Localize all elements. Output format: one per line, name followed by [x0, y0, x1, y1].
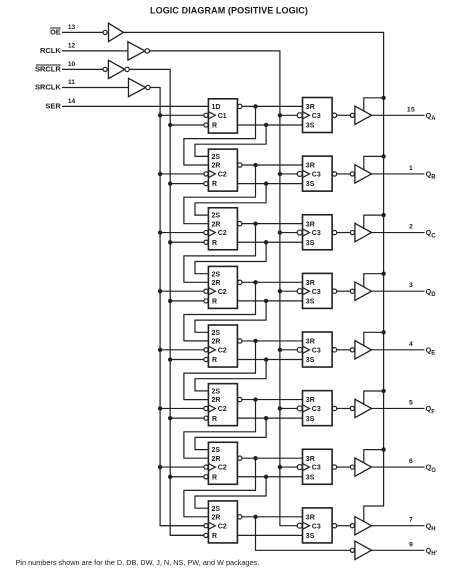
wire SRCLR to FF2 R input	[168, 181, 204, 185]
svg-text:2S: 2S	[212, 389, 221, 396]
svg-text:R: R	[212, 298, 217, 305]
wire output QG	[372, 466, 425, 468]
tri-state buffer B7 (output G)	[350, 458, 371, 476]
wire SRCLK to FF3 C input	[158, 230, 204, 234]
wire FF4 Q to FF5 2S	[195, 301, 266, 332]
wire FF7 Q to latch 3S (node G)	[237, 475, 302, 479]
wire RCLK to latch U1 C3	[278, 113, 298, 117]
input label OE	[50, 28, 61, 37]
wire latch U1 out to output buffer	[337, 114, 351, 116]
wire FF4 Q to latch 3S (node D)	[237, 299, 302, 303]
svg-text:1D: 1D	[212, 104, 221, 111]
svg-text:C3: C3	[312, 172, 321, 179]
svg-text:R: R	[212, 123, 217, 130]
svg-text:3R: 3R	[306, 456, 315, 463]
svg-text:C3: C3	[312, 347, 321, 354]
svg-text:3S: 3S	[306, 123, 315, 130]
wire OE rail to buffer B5 enable	[364, 330, 386, 345]
svg-text:13: 13	[68, 24, 76, 31]
wire output QD	[372, 290, 425, 292]
wire latch U5 out to output buffer	[337, 349, 351, 351]
wire latch U8 out to output buffer	[337, 525, 351, 527]
svg-text:R: R	[212, 474, 217, 481]
wire FF7 Q to FF8 2S	[195, 477, 266, 508]
svg-text:LOGIC DIAGRAM (POSITIVE LOGIC): LOGIC DIAGRAM (POSITIVE LOGIC)	[150, 5, 308, 15]
wire output QB	[372, 173, 425, 175]
svg-text:Pin numbers shown are for the: Pin numbers shown are for the D, DB, DW,…	[16, 558, 260, 567]
svg-text:2R: 2R	[212, 280, 221, 287]
tri-state buffer B3 (output C)	[350, 223, 371, 241]
wire output QE	[372, 349, 425, 351]
wire FF2 /Q to FF3 2R	[184, 165, 256, 224]
wire OE rail to buffer B3 enable	[364, 213, 386, 228]
svg-text:3R: 3R	[306, 397, 315, 404]
latch U3 (stage C storage)	[297, 215, 336, 250]
wire SRCLR to FF5 R input	[168, 357, 204, 361]
svg-text:2: 2	[409, 224, 413, 231]
svg-text:10: 10	[68, 61, 76, 68]
svg-text:2R: 2R	[212, 163, 221, 170]
wire SRCLK to FF6 C input	[158, 406, 204, 410]
svg-text:C1: C1	[218, 113, 227, 120]
svg-text:C3: C3	[312, 406, 321, 413]
buffer G1 OE inverting-input	[103, 23, 123, 41]
wire RCLK to latch U4 C3	[278, 289, 298, 293]
svg-text:2R: 2R	[212, 221, 221, 228]
svg-text:2S: 2S	[212, 154, 221, 161]
svg-text:R: R	[212, 416, 217, 423]
wire SRCLR rail (net shift-clear)	[129, 69, 204, 535]
svg-text:C2: C2	[218, 465, 227, 472]
wire latch U6 out to output buffer	[337, 407, 351, 409]
wire RCLK rail (net latch-clock)	[149, 51, 297, 526]
tri-state buffer B6 (output F)	[350, 399, 371, 417]
wire FF3 Q to FF4 2S	[195, 242, 266, 273]
input label SER	[45, 102, 61, 111]
svg-text:C3: C3	[312, 113, 321, 120]
buffer G3 SRCLR inverting-input inverting-output	[103, 60, 129, 78]
svg-text:6: 6	[409, 458, 413, 465]
flip-flop FF7 (stage G)	[204, 442, 242, 484]
wire latch U2 out to output buffer	[337, 173, 351, 175]
svg-text:11: 11	[68, 79, 75, 86]
svg-text:3R: 3R	[306, 221, 315, 228]
wire FF1 Q to FF2 2S	[195, 125, 266, 156]
wire OE rail to buffer B6 enable	[364, 389, 386, 404]
wire RCLK to latch U7 C3	[278, 465, 298, 469]
tri-state buffer B4 (output D)	[350, 282, 371, 300]
svg-text:C2: C2	[218, 172, 227, 179]
wire FF7 /Q to FF8 2R	[184, 458, 256, 517]
svg-text:C2: C2	[218, 347, 227, 354]
latch U6 (stage F storage)	[297, 391, 336, 426]
flip-flop FF5 (stage E)	[204, 325, 242, 367]
wire output QF	[372, 407, 425, 409]
wire FF2 /Q to latch 3R (node BN)	[242, 163, 303, 167]
wire output QH	[372, 525, 425, 527]
svg-text:2S: 2S	[212, 330, 221, 337]
svg-text:RCLK: RCLK	[40, 46, 61, 55]
wire RCLK to latch U2 C3	[278, 172, 298, 176]
wire FF5 Q to FF6 2S	[195, 360, 266, 391]
wire FF2 Q to FF3 2S	[195, 184, 266, 216]
svg-text:3S: 3S	[306, 240, 315, 247]
wire FF4 /Q to FF5 2R	[184, 282, 256, 341]
wire latch U4 out to output buffer	[337, 290, 351, 292]
svg-text:R: R	[212, 240, 217, 247]
wire SRCLR input	[62, 68, 103, 70]
inverter G4 SRCLK	[129, 78, 151, 96]
wire OE rail to buffer B8 enable	[0, 0, 1, 1]
wire SRCLK input	[62, 87, 129, 89]
wire RCLK to latch U3 C3	[278, 230, 298, 234]
wire RCLK to latch U8 C3	[0, 0, 1, 1]
wire SRCLK to FF2 C input	[158, 172, 204, 176]
wire OE rail to buffer B2 enable	[364, 154, 386, 169]
svg-text:3S: 3S	[306, 474, 315, 481]
svg-text:2S: 2S	[212, 271, 221, 278]
svg-text:C3: C3	[312, 230, 321, 237]
wire FF8 /Q to QH' buffer	[256, 517, 351, 551]
svg-text:SRCLR: SRCLR	[35, 65, 61, 74]
svg-text:C2: C2	[218, 523, 227, 530]
svg-text:2S: 2S	[212, 447, 221, 454]
wire OE rail to buffer B1 enable	[364, 96, 386, 111]
svg-text:12: 12	[68, 43, 76, 50]
svg-text:3S: 3S	[306, 298, 315, 305]
svg-text:2R: 2R	[212, 514, 221, 521]
latch U5 (stage E storage)	[297, 332, 336, 367]
wire FF3 Q to latch 3S (node C)	[237, 240, 302, 244]
wire FF5 /Q to latch 3R (node EN)	[242, 339, 303, 343]
wire SRCLR to FF8 R input	[170, 534, 204, 536]
wire SRCLR to FF7 R input	[168, 475, 204, 479]
svg-text:2R: 2R	[212, 456, 221, 463]
wire FF1 /Q to FF2 2R	[184, 106, 256, 165]
wire OE rail to buffer B4 enable	[364, 271, 386, 286]
latch U8 (stage H storage)	[297, 508, 336, 543]
input label RCLK	[40, 46, 61, 55]
svg-text:3R: 3R	[306, 280, 315, 287]
svg-text:3S: 3S	[306, 533, 315, 540]
wire FF5 Q to latch 3S (node E)	[237, 357, 302, 361]
svg-text:9: 9	[409, 541, 413, 548]
svg-text:15: 15	[407, 106, 415, 113]
svg-text:C2: C2	[218, 289, 227, 296]
wire OE input	[62, 31, 103, 33]
wire FF7 /Q to latch 3R (node GN)	[242, 456, 303, 460]
svg-text:2R: 2R	[212, 397, 221, 404]
svg-text:3R: 3R	[306, 104, 315, 111]
svg-text:R: R	[212, 357, 217, 364]
flip-flop FF8 (stage H)	[204, 501, 242, 543]
flip-flop FF2 (stage B)	[204, 149, 242, 191]
wire FF2 Q to latch 3S (node B)	[237, 181, 302, 185]
wire FF6 Q to FF7 2S	[195, 418, 266, 449]
svg-text:4: 4	[409, 341, 413, 348]
tri-state buffer B1 (output A)	[350, 106, 371, 124]
svg-text:2S: 2S	[212, 506, 221, 513]
latch U7 (stage G storage)	[297, 449, 336, 484]
svg-text:3: 3	[409, 282, 413, 289]
svg-text:C3: C3	[312, 523, 321, 530]
svg-text:14: 14	[68, 98, 76, 105]
wire SRCLR to FF3 R input	[168, 240, 204, 244]
svg-text:SRCLK: SRCLK	[35, 83, 61, 92]
wire output QC	[372, 232, 425, 234]
latch U4 (stage D storage)	[297, 273, 336, 308]
wire FF6 Q to latch 3S (node F)	[237, 416, 302, 420]
wire FF6 /Q to latch 3R (node FN)	[242, 397, 303, 401]
wire SRCLK to FF1 C input	[158, 113, 204, 117]
wire FF6 /Q to FF7 2R	[184, 400, 256, 459]
flip-flop FF4 (stage D)	[204, 266, 242, 308]
wire FF4 /Q to latch 3R (node DN)	[242, 280, 303, 284]
tri-state buffer B2 (output B)	[350, 165, 371, 183]
svg-text:2S: 2S	[212, 213, 221, 220]
wire RCLK to latch U5 C3	[278, 348, 298, 352]
svg-text:R: R	[212, 181, 217, 188]
wire FF1 /Q to latch 3R (node AN)	[242, 104, 303, 108]
wire FF3 /Q to latch 3R (node CN)	[242, 221, 303, 225]
flip-flop FF3 (stage C)	[204, 208, 242, 250]
wire SRCLR to FF1 R input	[168, 123, 204, 127]
buffer B9 (output QH')	[350, 541, 371, 559]
wire FF8 Q to latch 3S (node H)	[237, 534, 302, 536]
svg-text:3R: 3R	[306, 163, 315, 170]
wire SER input to 1D of FF1	[62, 105, 208, 107]
svg-text:3R: 3R	[306, 339, 315, 346]
svg-text:C3: C3	[312, 289, 321, 296]
wire FF1 Q to latch 3S (node A)	[237, 123, 302, 127]
svg-text:1: 1	[409, 165, 413, 172]
wire RCLK to latch U6 C3	[278, 406, 298, 410]
svg-text:3S: 3S	[306, 357, 315, 364]
svg-text:C2: C2	[218, 230, 227, 237]
svg-text:C3: C3	[312, 465, 321, 472]
wire output QH'	[372, 549, 425, 551]
svg-text:7: 7	[409, 517, 413, 524]
wire OE rail to buffer B7 enable	[364, 447, 386, 462]
latch U1 (stage A storage)	[297, 98, 336, 133]
wire FF3 /Q to FF4 2R	[184, 224, 256, 283]
tri-state buffer B8 (output H)	[350, 517, 371, 535]
wire SRCLK to FF5 C input	[158, 348, 204, 352]
input label SRCLR	[35, 65, 61, 74]
svg-text:OE: OE	[50, 28, 61, 37]
svg-text:SER: SER	[45, 102, 61, 111]
wire FF5 /Q to FF6 2R	[184, 341, 256, 400]
wire output QA	[372, 114, 425, 116]
latch U2 (stage B storage)	[297, 156, 336, 191]
svg-text:5: 5	[409, 400, 413, 407]
wire SRCLR to FF4 R input	[168, 299, 204, 303]
flip-flop FF1 (stage A)	[204, 99, 242, 133]
wire latch U7 out to output buffer	[337, 466, 351, 468]
wire SRCLK rail (net shift-clock)	[150, 88, 204, 526]
wire latch U3 out to output buffer	[337, 232, 351, 234]
wire RCLK input	[62, 50, 128, 52]
svg-text:2R: 2R	[212, 339, 221, 346]
wire SRCLK to FF8 C input	[160, 525, 204, 527]
wire FF8 /Q to latch 3R (node HN)	[242, 515, 303, 519]
svg-text:R: R	[212, 533, 217, 540]
wire SRCLK to FF7 C input	[158, 465, 204, 469]
wire SRCLR to FF6 R input	[168, 416, 204, 420]
inverter G2 RCLK	[128, 42, 149, 60]
flip-flop FF6 (stage F)	[204, 384, 242, 426]
svg-text:3R: 3R	[306, 514, 315, 521]
svg-text:3S: 3S	[306, 416, 315, 423]
svg-text:3S: 3S	[306, 181, 315, 188]
wire SRCLK to FF4 C input	[158, 289, 204, 293]
tri-state buffer B5 (output E)	[350, 341, 371, 359]
wire OE rail (net /OE-enable)	[123, 32, 383, 521]
input label SRCLK	[35, 83, 61, 92]
svg-text:C2: C2	[218, 406, 227, 413]
